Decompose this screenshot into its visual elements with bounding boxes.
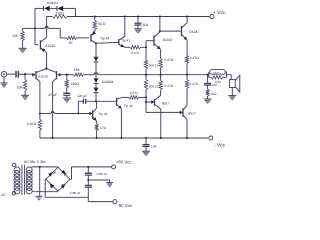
- label A1015 for Q2: [45, 44, 55, 48]
- resistor R4 18K feedback: [74, 73, 84, 76]
- wire zobel to ground: [207, 96, 209, 99]
- label +50Vcc: [116, 159, 132, 164]
- wire D1047-2 base line: [160, 30, 182, 32]
- label 220: [71, 82, 80, 86]
- svg-text:10Ω: 10Ω: [210, 92, 217, 96]
- ground under speaker: [228, 96, 236, 101]
- node junction at (187,74.7): [186, 74, 188, 76]
- wire speaker to ground: [231, 88, 233, 96]
- label 10K: [12, 34, 19, 38]
- wire Q6 emitter to rail: [120, 108, 122, 138]
- resistor R6 56 ohm: [93, 17, 96, 30]
- wire 6.8 to base node: [141, 46, 147, 48]
- diode D1 1N4004: [44, 6, 50, 11]
- wire -50 rail: [88, 197, 113, 201]
- wire node line to Q6 base: [86, 100, 117, 102]
- node junction at (146,102): [145, 101, 147, 103]
- label B817 first: [162, 102, 170, 106]
- wire Q6 collector to 6.8: [123, 96, 130, 98]
- resistor R13 0.47 lower-right: [185, 75, 188, 89]
- resistor R16 8.2K: [38, 114, 41, 131]
- resistor R1 10K: [21, 31, 24, 40]
- diode D2 1N4004: [57, 6, 63, 11]
- svg-text:104: 104: [143, 23, 149, 27]
- svg-text:+ Vcc: + Vcc: [213, 10, 226, 16]
- node junction at (94.8,16.5): [94, 15, 96, 17]
- bridge diode upper-left: [48, 172, 56, 177]
- svg-text:D1047: D1047: [189, 30, 199, 34]
- wire bias chain: [95, 84, 97, 88]
- wire Q3 collector to Q4 base: [96, 41, 119, 44]
- terminal -Vcc: [209, 136, 213, 140]
- wire rail to D1047 node: [159, 17, 161, 32]
- transistor Q8 D1047 second: [182, 23, 188, 40]
- svg-text:4700 uF: 4700 uF: [96, 172, 107, 176]
- label 104 bottom: [151, 145, 157, 149]
- resistor R2 2K: [67, 36, 77, 39]
- svg-text:120 µF: 120 µF: [77, 94, 87, 98]
- transistor Q1b A1015 diff right: [46, 69, 60, 82]
- wire rail left corner vertical: [46, 17, 48, 37]
- terminal +50Vcc: [112, 165, 116, 169]
- wire secondary top to bridge: [32, 166, 59, 168]
- svg-text:Tip 41: Tip 41: [121, 39, 130, 43]
- wire jack to cap: [7, 73, 16, 75]
- transistor Q6 Tip42 lower driver: [117, 97, 123, 108]
- hop crossing at (96,74.7): [94, 73, 97, 75]
- node junction at (35,28.4): [34, 27, 36, 29]
- svg-text:1N4004: 1N4004: [47, 1, 59, 5]
- svg-text:1N4004: 1N4004: [102, 80, 114, 84]
- diode D4 1N4004 bias: [94, 78, 99, 83]
- transistor Q3 Tip42: [91, 31, 96, 43]
- ground under C3: [134, 29, 142, 34]
- label 18K: [74, 68, 81, 72]
- wire B817-2 collector to rail: [186, 119, 188, 138]
- svg-text:18K: 18K: [74, 68, 81, 72]
- wire to speaker: [227, 75, 232, 80]
- wire cap C4 left lead: [78, 101, 83, 113]
- transistor Q2 A1015 current source: [40, 37, 46, 52]
- label 104 zobel: [211, 83, 217, 87]
- label 0.47 lower-right: [189, 82, 198, 86]
- resistor R14 27 ohm: [95, 124, 98, 131]
- label D1047 first: [163, 38, 173, 42]
- wire -Vcc rail: [40, 137, 208, 139]
- svg-text:Tip 41: Tip 41: [99, 112, 108, 116]
- capacitor C4 120uF: [83, 99, 85, 104]
- label AC: [1, 193, 6, 197]
- transistor Q7 D1047 first: [154, 32, 161, 50]
- wire B817-1 base: [146, 97, 151, 112]
- label 0.47 upper-left: [164, 58, 173, 62]
- node junction at (207.6,74.7): [207, 74, 209, 76]
- label AC 36v x 36v: [24, 160, 46, 164]
- svg-text:0.47Ω: 0.47Ω: [164, 84, 173, 88]
- transformer T1 core: [22, 165, 25, 195]
- node junction at (159.9,16.5): [159, 15, 161, 17]
- wire 8.2K to rail: [39, 130, 41, 138]
- label 6.8 lower: [130, 91, 138, 95]
- svg-text:4700 uF: 4700 uF: [70, 191, 81, 195]
- wire output node line: [84, 74, 208, 76]
- svg-text:6.8 Ω: 6.8 Ω: [131, 51, 139, 55]
- ground under C2: [63, 98, 71, 103]
- bridge diode upper-right: [61, 170, 66, 176]
- wire secondary bottom to bridge: [32, 191, 59, 193]
- label +Vcc: [213, 10, 226, 16]
- node diff emitters: [45, 68, 47, 70]
- wire 56 to Q3 emitter: [94, 30, 96, 32]
- label 104 top: [143, 23, 149, 27]
- label 270: [56, 12, 65, 16]
- node junction at (78.4,113.5): [77, 112, 79, 114]
- svg-text:Tip 42: Tip 42: [124, 104, 133, 108]
- node junction at (187.1,16.5): [186, 15, 188, 17]
- wire Q5 emitter down: [96, 121, 98, 124]
- svg-text:10Ω: 10Ω: [215, 80, 222, 84]
- wire 0.47 to output: [160, 68, 162, 75]
- resistor R8 200 upper: [144, 47, 147, 69]
- label -50Vcc: [117, 203, 132, 208]
- node junction Q3 collector: [95, 42, 97, 44]
- transistor Q1a A1015 diff left: [32, 69, 46, 82]
- transistor Q10 B817 second: [180, 106, 187, 120]
- svg-text:B817: B817: [162, 102, 170, 106]
- svg-text:6.8 Ω: 6.8 Ω: [130, 91, 138, 95]
- bridge rectifier BR1 diamond: [46, 167, 70, 191]
- wire bias chain upper: [95, 43, 97, 57]
- svg-text:104: 104: [151, 145, 157, 149]
- wire bias chain mid: [95, 62, 97, 79]
- node junction at (88.3,180): [87, 179, 89, 181]
- resistor R3 10K input: [23, 80, 26, 91]
- wire D1047-1 collector link: [159, 30, 161, 33]
- wire 2K to Q3 base: [77, 37, 90, 39]
- terminal -50Vcc: [113, 200, 117, 204]
- wire cap to ground: [66, 95, 68, 98]
- wire 200 upper to output: [145, 69, 147, 75]
- capacitor C5 104 zobel: [204, 75, 211, 85]
- resistor R17 10 zobel: [206, 85, 209, 96]
- label 8.2K: [27, 122, 37, 126]
- svg-text:200 Ω: 200 Ω: [149, 84, 158, 88]
- resistor R11 200 lower: [144, 75, 147, 90]
- label 10 zobel: [210, 92, 217, 96]
- ground under R1: [19, 48, 27, 53]
- capacitor C2 47uF: [63, 93, 70, 95]
- wire 27 to rail: [96, 131, 98, 138]
- terminal AC top: [13, 163, 16, 166]
- wire Q2 collector to rail: [46, 36, 48, 39]
- capacitor C7 4700uF: [85, 180, 92, 197]
- label Tip41 for Q5: [99, 112, 108, 116]
- node junction at (138,16.5): [137, 15, 139, 17]
- svg-text:0.47Ω: 0.47Ω: [189, 82, 198, 86]
- wire bias chain lower: [95, 93, 97, 102]
- svg-text:B817: B817: [188, 111, 196, 115]
- ground under jack: [0, 83, 7, 88]
- inductor L1 with parallel resistor: [209, 70, 227, 79]
- label 120uF: [77, 94, 87, 98]
- resistor R 270&#937; in +Vcc rail: [52, 15, 67, 18]
- svg-text:220Ω: 220Ω: [71, 82, 80, 86]
- wire feedback line from diff to 18K: [59, 74, 74, 76]
- wire 10K to ground: [22, 41, 24, 49]
- wire mid node to ground: [88, 180, 109, 183]
- resistor R9 0.47 upper-left: [159, 49, 162, 67]
- resistor R12 0.47 lower-left: [159, 75, 162, 90]
- label Tip42 for Q3: [100, 37, 109, 41]
- node junction at (25.1,74.2): [24, 73, 26, 75]
- svg-text:+50 Vcc: +50 Vcc: [116, 159, 132, 164]
- wire 220 to cap: [66, 88, 68, 93]
- svg-text:2K: 2K: [69, 41, 74, 45]
- wire B817-1 collector to rail: [160, 109, 162, 138]
- label 0.47 lower-left: [164, 84, 173, 88]
- svg-text:AC: AC: [1, 193, 6, 197]
- label 200 lower: [149, 84, 158, 88]
- svg-text:0.47Ω: 0.47Ω: [190, 56, 199, 60]
- wire Q8 collector to rail: [186, 17, 188, 23]
- input jack J1: [1, 72, 6, 77]
- node junction at (39.9,113.5): [39, 112, 41, 114]
- label 4700uF lower: [70, 191, 81, 195]
- svg-text:D1047: D1047: [163, 38, 173, 42]
- wire diff right collector down: [52, 82, 54, 138]
- node junction at (146,74.7): [145, 74, 147, 76]
- svg-text:10K: 10K: [17, 85, 24, 89]
- capacitor C3 104: [135, 17, 142, 29]
- svg-text:A1015: A1015: [45, 44, 55, 48]
- speaker LS1: [230, 75, 240, 92]
- svg-text:56 Ω: 56 Ω: [98, 22, 106, 26]
- transistor Q5 Tip41 lower driver: [89, 108, 96, 121]
- label 1N4004 bias: [102, 80, 114, 84]
- wire diff left collector down: [39, 82, 41, 114]
- label 6.8 upper: [131, 51, 139, 55]
- transistor Q4 Tip41: [119, 36, 125, 47]
- wire jack to ground: [3, 77, 5, 83]
- svg-text:270Ω: 270Ω: [56, 12, 65, 16]
- wire R3 to ground: [24, 91, 26, 96]
- label 10 parallel: [215, 80, 222, 84]
- label Tip42 for Q6: [124, 104, 133, 108]
- label Tip41 for Q4: [121, 39, 130, 43]
- wire Q5 collector up: [96, 101, 98, 108]
- wire B817-2 base line: [146, 111, 180, 113]
- node junction at (159.9,31.1): [159, 30, 161, 32]
- ground center tap: [35, 196, 42, 199]
- node junction at (160.6,74.7): [160, 74, 162, 76]
- wire 200 lower to 6.8 node: [145, 90, 147, 98]
- wire +Vcc rail: [47, 16, 210, 18]
- terminal AC bottom: [12, 192, 15, 195]
- label 27: [100, 126, 107, 130]
- label 200 upper: [149, 63, 158, 67]
- svg-text:Tip 42: Tip 42: [100, 37, 109, 41]
- capacitor C8 104 on -Vcc rail: [143, 137, 150, 151]
- wire cap to Q1a base: [18, 73, 32, 75]
- wire D1047-1 base: [146, 41, 154, 48]
- wire Q4 emitter to 6.8: [125, 46, 130, 48]
- hop crossing at (46.6,28.4): [45, 27, 48, 29]
- transformer T1 secondary winding: [26, 167, 32, 194]
- bridge diode lower-right: [61, 184, 66, 189]
- label A1015 diff pair: [38, 74, 48, 78]
- capacitor C1 input coupling: [16, 71, 18, 78]
- svg-text:27Ω: 27Ω: [100, 126, 107, 130]
- node junction at (88.3,166.9): [87, 166, 89, 168]
- wire secondary tap to ground: [39, 166, 41, 196]
- wire bridge plus output: [70, 167, 112, 179]
- transformer T1 primary winding: [14, 167, 20, 194]
- label 0.47 upper-right: [190, 56, 199, 60]
- resistor R15 6.8 lower: [129, 96, 139, 99]
- svg-text:10K: 10K: [12, 34, 19, 38]
- node junction at (96,101.3): [95, 100, 97, 102]
- svg-text:0.47Ω: 0.47Ω: [164, 58, 173, 62]
- capacitor C6 4700uF: [85, 167, 92, 180]
- node junction at (146,97.4): [145, 96, 147, 98]
- label 47uF: [48, 93, 57, 97]
- ground under R3: [21, 95, 29, 100]
- wire Q5 base line: [40, 113, 89, 115]
- svg-text:AC 36v X 36v: AC 36v X 36v: [24, 160, 46, 164]
- label D1047 second: [189, 30, 199, 34]
- wire 0.47 lower-left to B817: [160, 90, 162, 96]
- resistor R5 220 feedback shunt: [65, 75, 68, 88]
- node junction at (66.8,74.7): [66, 74, 68, 76]
- wire top-left vertical from diode branch to Q2 base: [35, 8, 38, 44]
- wire 2K branch: [35, 28, 67, 38]
- bridge diode lower-left: [50, 183, 55, 188]
- ground PSU mid: [106, 183, 113, 188]
- wire Q2 emitter to diff pair: [46, 53, 48, 69]
- transistor Q9 B817 first: [151, 95, 161, 109]
- label B817 second: [188, 111, 196, 115]
- wire Q4 collector to rail: [124, 15, 126, 36]
- wire bridge minus output: [45, 179, 88, 197]
- svg-text:A1015: A1015: [38, 74, 48, 78]
- ground under C8: [142, 151, 150, 156]
- resistor R7 6.8 upper: [130, 46, 141, 49]
- wire 6.8 lower to node: [139, 96, 147, 98]
- label 1N4004 for D1 D2: [47, 1, 59, 5]
- wire 10K branch: [23, 28, 35, 31]
- label 4700uF upper: [96, 172, 107, 176]
- label 2K: [69, 41, 74, 45]
- svg-text:200 Ω: 200 Ω: [149, 63, 158, 67]
- node junction at (146,47.3): [145, 46, 147, 48]
- diode D3 1N4004 bias: [94, 57, 99, 62]
- resistor R10 0.47 upper-right: [185, 55, 188, 74]
- label 10K input: [17, 85, 24, 89]
- label 56: [98, 22, 106, 26]
- svg-text:-50 Vcc: -50 Vcc: [117, 203, 132, 208]
- wire Q8 emitter down: [186, 40, 188, 56]
- terminal +Vcc: [210, 15, 214, 19]
- svg-text:8.2KΩ: 8.2KΩ: [27, 122, 37, 126]
- label -Vcc: [214, 143, 226, 149]
- svg-text:10µH: 10µH: [213, 71, 219, 74]
- wire 10K input branch: [24, 74, 26, 80]
- wire 0.47 lower-right to B817: [186, 88, 188, 105]
- diode D5 1N4004 bias: [94, 88, 99, 93]
- wire diode branch: [35, 8, 76, 16]
- ground under zobel: [204, 99, 212, 104]
- svg-text:- Vcc: - Vcc: [214, 143, 226, 149]
- hop crossing at (52.6,113.5): [51, 112, 54, 114]
